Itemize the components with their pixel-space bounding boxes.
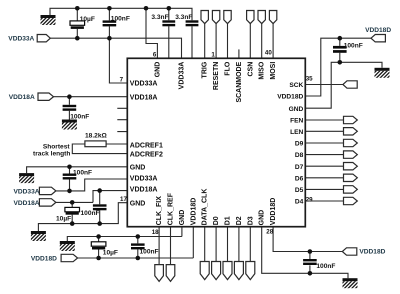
svg-text:D4: D4: [295, 199, 304, 206]
svg-text:100nF: 100nF: [73, 169, 92, 176]
svg-text:VDD18A: VDD18A: [9, 94, 35, 101]
svg-text:100nF: 100nF: [344, 43, 363, 50]
svg-text:MOSI: MOSI: [270, 62, 277, 80]
svg-text:10µF: 10µF: [56, 216, 71, 223]
svg-text:40: 40: [265, 50, 272, 57]
svg-text:1: 1: [211, 51, 215, 58]
svg-text:TRIG: TRIG: [202, 61, 209, 78]
svg-text:10µF: 10µF: [103, 249, 118, 256]
svg-text:35: 35: [306, 76, 313, 83]
svg-text:GND: GND: [130, 164, 146, 171]
svg-text:17: 17: [120, 196, 127, 203]
svg-text:RESETN: RESETN: [213, 62, 220, 90]
svg-text:MISO: MISO: [259, 61, 266, 79]
svg-text:VDD18A: VDD18A: [130, 186, 158, 193]
svg-text:CLK_REF: CLK_REF: [168, 192, 175, 225]
svg-text:ADCREF1: ADCREF1: [130, 142, 163, 149]
svg-text:FEN: FEN: [290, 118, 303, 125]
svg-text:GND: GND: [259, 210, 266, 226]
svg-text:GND: GND: [179, 210, 186, 226]
svg-text:D3: D3: [247, 216, 254, 225]
svg-text:DATA_CLK: DATA_CLK: [202, 189, 209, 226]
svg-text:VDD18D: VDD18D: [277, 94, 303, 101]
svg-text:29: 29: [306, 197, 313, 204]
svg-text:3.3nF: 3.3nF: [175, 14, 192, 21]
svg-text:VDD33A: VDD33A: [14, 188, 40, 195]
svg-text:VDD33A: VDD33A: [8, 35, 34, 42]
svg-text:D6: D6: [295, 175, 304, 182]
svg-text:D2: D2: [236, 216, 243, 225]
svg-text:VDD18D: VDD18D: [365, 27, 391, 34]
svg-text:100nF: 100nF: [111, 16, 130, 23]
svg-text:GND: GND: [130, 200, 146, 207]
svg-text:SCK: SCK: [289, 82, 303, 89]
svg-text:FLO: FLO: [225, 61, 232, 76]
svg-text:3.3nF: 3.3nF: [151, 14, 168, 21]
svg-text:7: 7: [120, 77, 124, 84]
svg-text:SCANMODE: SCANMODE: [236, 61, 243, 102]
svg-text:GND: GND: [289, 106, 304, 113]
svg-text:100nF: 100nF: [81, 210, 100, 217]
svg-text:6: 6: [153, 51, 157, 58]
svg-text:VDD18A: VDD18A: [130, 94, 158, 101]
svg-text:VDD33A: VDD33A: [130, 81, 158, 88]
svg-text:D5: D5: [295, 187, 304, 194]
svg-text:track length: track length: [33, 151, 70, 158]
svg-text:CLK_FIX: CLK_FIX: [156, 196, 163, 226]
svg-text:VDD18D: VDD18D: [359, 248, 385, 255]
svg-text:18.2kΩ: 18.2kΩ: [85, 133, 108, 140]
svg-text:CSN: CSN: [247, 62, 254, 77]
svg-text:100nF: 100nF: [140, 249, 159, 256]
svg-text:D9: D9: [295, 141, 304, 148]
svg-text:D0: D0: [213, 216, 220, 225]
svg-text:28: 28: [266, 229, 273, 236]
svg-text:VDD18D: VDD18D: [270, 198, 277, 226]
svg-text:D7: D7: [295, 164, 304, 171]
svg-text:VDD18A: VDD18A: [14, 200, 40, 207]
svg-text:Shortest: Shortest: [43, 143, 71, 150]
svg-text:18: 18: [152, 229, 159, 236]
svg-text:D1: D1: [225, 216, 232, 225]
svg-text:100nF: 100nF: [316, 263, 335, 270]
svg-text:ADCREF2: ADCREF2: [130, 152, 163, 159]
svg-text:D8: D8: [295, 152, 304, 159]
svg-text:LEN: LEN: [290, 129, 303, 136]
svg-text:GND: GND: [154, 62, 161, 78]
svg-text:VDD18D: VDD18D: [31, 256, 57, 263]
svg-text:100nF: 100nF: [70, 113, 89, 120]
svg-text:VDD18D: VDD18D: [190, 198, 197, 226]
svg-text:10µF: 10µF: [80, 16, 95, 23]
svg-text:VDD33A: VDD33A: [179, 62, 186, 90]
svg-text:VDD33A: VDD33A: [130, 175, 158, 182]
